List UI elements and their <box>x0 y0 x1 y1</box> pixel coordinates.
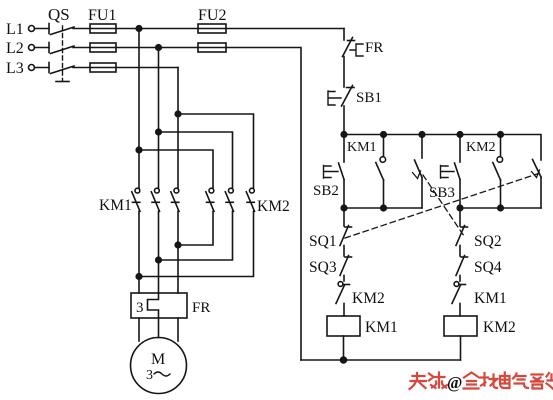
node lower SB3 <box>457 205 463 211</box>
wire KM2-2 to B <box>159 211 233 260</box>
svg-text:M: M <box>151 351 165 368</box>
FR thermal element symbol <box>350 44 363 56</box>
motor circle M 3~ <box>131 338 187 394</box>
wire box to motor A <box>138 318 140 341</box>
svg-text:FU1: FU1 <box>88 7 116 24</box>
contact KM1-3 <box>171 188 179 211</box>
svg-text:SQ2: SQ2 <box>474 233 502 250</box>
wire SQ4 to KM1 interlock <box>459 276 461 282</box>
watermark toutiao red text <box>410 373 448 390</box>
fuse FU1-3 <box>90 67 116 69</box>
contact KM1 aux NO <box>376 135 386 209</box>
wire SB1 to bus <box>343 106 345 135</box>
contact SQ2-NO linked <box>413 135 423 209</box>
contact KM2-1 <box>206 188 214 211</box>
wire KM1-3 down <box>177 211 179 293</box>
node bus SB3 <box>457 132 463 138</box>
fuse FU1-2 <box>90 47 116 49</box>
node bus SB2 <box>341 132 347 138</box>
wire L2 to QS <box>35 47 50 49</box>
limit switch SQ2 NC <box>456 226 468 246</box>
fuse FU1-1 <box>90 28 116 30</box>
node B join <box>156 257 162 263</box>
svg-text:KM1: KM1 <box>99 197 132 214</box>
wire SQ1 to SQ3 <box>343 246 345 257</box>
wire top bus <box>344 135 541 161</box>
contact KM1 NC interlock <box>452 282 466 316</box>
svg-text:L1: L1 <box>6 21 24 38</box>
button SB3 NO <box>441 135 461 209</box>
wire QS1 to FU1 <box>73 28 90 30</box>
wire L2 FU1 to FU2 <box>116 47 198 49</box>
svg-text:L3: L3 <box>6 60 24 77</box>
svg-text:KM2: KM2 <box>483 319 516 336</box>
wire FU2-1 to control <box>226 28 344 30</box>
wire KM1-2 down <box>158 211 160 293</box>
wire KM2-3 to A <box>139 211 254 276</box>
node C join <box>175 242 181 248</box>
node C tap <box>175 111 181 117</box>
QS linkage end bar <box>56 81 69 83</box>
svg-text:FR: FR <box>192 300 210 316</box>
svg-text:@: @ <box>447 373 462 392</box>
wire coil KM1 to rail <box>343 336 345 360</box>
QS pole 1 fixed tick <box>48 24 50 34</box>
wire bus to SQ2 <box>459 208 461 226</box>
svg-text:SQ4: SQ4 <box>474 259 502 276</box>
wire KM2-1 to C <box>178 211 213 245</box>
node bus KM2 aux <box>498 132 504 138</box>
wire L1 FU1 to FU2 <box>116 28 198 30</box>
contact FR NC <box>343 38 355 57</box>
QS pole 1 blade <box>51 27 75 35</box>
svg-text:3: 3 <box>146 368 153 383</box>
node L2 drop <box>156 45 162 51</box>
wire box to motor B <box>158 318 160 338</box>
QS pole 3 fixed tick <box>48 63 50 73</box>
svg-text:KM1: KM1 <box>347 140 377 155</box>
terminal circle L1 <box>29 26 35 32</box>
node A join <box>136 274 142 280</box>
svg-text:SQ1: SQ1 <box>309 233 337 250</box>
wire tap C to KM2 pole3 <box>178 114 254 189</box>
wire L3 to QS <box>35 67 50 69</box>
node rail KM1 <box>341 357 347 363</box>
svg-text:FU2: FU2 <box>198 7 226 24</box>
contact KM2 aux NO <box>493 135 503 209</box>
wire L3 to corner <box>116 67 178 69</box>
fuse FU2-1 <box>198 28 226 30</box>
svg-text:FR: FR <box>365 40 383 56</box>
node bus SQ2-NO <box>419 132 425 138</box>
node L1 drop <box>136 26 142 32</box>
svg-text:KM2: KM2 <box>466 140 496 155</box>
node A tap <box>136 147 142 153</box>
contact KM2-3 <box>246 188 254 211</box>
svg-text:KM1: KM1 <box>365 319 398 336</box>
motor tilde <box>154 372 170 376</box>
node B tap <box>156 129 162 135</box>
contact KM2 NC interlock <box>336 282 350 316</box>
terminal circle L2 <box>29 45 35 51</box>
wire FR to SB1 <box>343 57 345 88</box>
wire L1 to QS <box>35 28 50 30</box>
svg-text:SQ3: SQ3 <box>309 259 337 276</box>
wire SQ2 to SQ4 <box>459 246 461 257</box>
wire lower bus left <box>344 207 422 209</box>
wire bottom rail <box>301 359 461 361</box>
svg-text:SB2: SB2 <box>313 183 339 199</box>
svg-text:QS: QS <box>48 5 70 24</box>
svg-text:KM2: KM2 <box>257 198 290 215</box>
wire coil KM2 to rail <box>460 336 462 360</box>
svg-text:SB1: SB1 <box>356 90 382 106</box>
wire tap B to KM2 pole2 <box>159 132 233 189</box>
dashed linkage SQ2 to NO contact <box>423 175 464 236</box>
wire phase B drop <box>158 48 160 189</box>
wire phase C drop <box>177 68 179 189</box>
contact KM1-2 <box>151 188 159 211</box>
wire QS2 to FU1 <box>73 47 90 49</box>
limit switch SQ4 NC <box>456 256 468 276</box>
coil KM2 <box>444 316 477 336</box>
contact KM1-1 <box>132 188 140 211</box>
limit switch SQ3 NC <box>340 256 352 276</box>
node bus KM1 aux <box>381 132 387 138</box>
svg-text:SB3: SB3 <box>429 185 455 201</box>
wire control feed down <box>343 29 345 41</box>
node lower SB2 <box>341 205 347 211</box>
limit switch SQ1 NC <box>340 226 352 246</box>
node lower KM1 aux <box>381 205 387 211</box>
svg-text:KM2: KM2 <box>352 290 385 307</box>
node lower KM2 aux <box>498 205 504 211</box>
svg-text:3: 3 <box>136 300 144 316</box>
svg-text:KM1: KM1 <box>474 290 507 307</box>
FR heater element jog <box>148 293 159 318</box>
wire SQ3 to KM2 interlock <box>343 276 345 282</box>
terminal circle L3 <box>29 65 35 71</box>
QS pole 2 fixed tick <box>48 43 50 53</box>
contact KM2-2 <box>225 188 233 211</box>
dashed linkage SQ1 to NO contact <box>345 172 543 238</box>
coil KM1 <box>327 316 360 336</box>
wire FU2-2 to control left rail <box>226 48 301 361</box>
button SB2 NO <box>324 135 345 209</box>
wire QS3 to FU1 <box>73 67 90 69</box>
FR heater box <box>131 293 187 318</box>
fuse FU2-2 <box>198 47 226 49</box>
wire lower bus right <box>460 207 541 209</box>
wire phase A drop <box>138 29 140 189</box>
svg-text:L2: L2 <box>6 40 24 57</box>
wire box to motor C <box>177 318 179 341</box>
QS pole 3 blade <box>51 66 75 74</box>
contact SQ1-NO linked <box>532 160 542 209</box>
QS pole 2 blade <box>51 46 75 54</box>
wire tap A to KM2 pole1 <box>139 150 213 189</box>
wire KM1-1 down <box>138 211 140 293</box>
button SB1 NC <box>328 86 354 107</box>
QS linkage dashed bar <box>62 26 64 81</box>
wire bus to SQ1 <box>343 208 345 226</box>
